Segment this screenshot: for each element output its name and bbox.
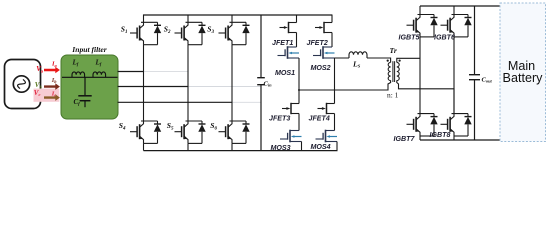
svg-text:S5: S5 bbox=[167, 121, 174, 131]
wire phase line c faint continuation bbox=[232, 101, 261, 103]
switch S1 bbox=[130, 22, 161, 44]
switch S3 bbox=[219, 22, 250, 44]
svg-text:Ia: Ia bbox=[51, 61, 58, 68]
wire S6 emitter stub bbox=[231, 143, 233, 150]
svg-text:IGBT5: IGBT5 bbox=[399, 34, 421, 42]
wire S2 collector stub bbox=[187, 15, 189, 23]
junction leg1 mid node bbox=[298, 89, 300, 91]
wire Cin bus bottom bbox=[260, 85, 262, 151]
wire leg phase a bbox=[143, 45, 145, 121]
svg-text:IGBT8: IGBT8 bbox=[430, 131, 451, 139]
svg-text:JFET2: JFET2 bbox=[307, 39, 328, 47]
svg-text:MOS2: MOS2 bbox=[311, 64, 331, 72]
svg-text:MOS1: MOS1 bbox=[275, 69, 295, 77]
wire leg phase c bbox=[231, 45, 233, 121]
main battery box bbox=[500, 3, 546, 142]
svg-text:S3: S3 bbox=[207, 25, 214, 35]
svg-text:IGBT7: IGBT7 bbox=[394, 135, 416, 143]
wire JFET2 drain stub bbox=[331, 15, 333, 23]
switch S5 bbox=[175, 121, 206, 143]
wire JFET1 drain stub bbox=[296, 15, 298, 23]
wire phase line a bbox=[118, 71, 144, 73]
wire phase line b bbox=[118, 86, 189, 88]
wire Cf branch bbox=[84, 77, 86, 95]
switch S2 bbox=[175, 22, 206, 44]
transformer Tr bbox=[388, 61, 399, 82]
svg-text:Ib: Ib bbox=[51, 77, 58, 84]
wire phase line a faint continuation bbox=[144, 71, 189, 73]
switch S4 bbox=[130, 121, 161, 143]
wire Cout bus bottom bbox=[474, 80, 476, 140]
transistor MOS4 bbox=[316, 130, 338, 143]
capacitor Cin bbox=[257, 78, 265, 85]
svg-text:S6: S6 bbox=[210, 121, 217, 131]
capacitor Cout bbox=[469, 75, 480, 80]
wire MOS4 source stub bbox=[336, 142, 338, 151]
svg-text:JFET1: JFET1 bbox=[272, 39, 293, 47]
wire Cout bus top bbox=[474, 6, 476, 74]
wire JFET2 source to MOS2 drain bbox=[331, 33, 333, 48]
wire JFET3 source to MOS3 drain bbox=[298, 114, 300, 131]
switch IGBT5 bbox=[407, 15, 438, 37]
svg-text:Tr: Tr bbox=[390, 46, 398, 55]
transistor JFET3 bbox=[282, 103, 299, 114]
arrow Ib phase b bbox=[44, 83, 60, 90]
svg-text:MOS3: MOS3 bbox=[271, 144, 291, 152]
wire S4 emitter stub bbox=[143, 143, 145, 150]
wire phase line b faint continuation bbox=[188, 86, 261, 88]
transistor MOS2 bbox=[313, 46, 335, 59]
wire primary return (leg1 mid to transformer primary bottom) bbox=[299, 80, 391, 90]
svg-text:JFET4: JFET4 bbox=[309, 114, 330, 122]
arrow Ia phase a bbox=[44, 67, 60, 74]
transistor MOS3 bbox=[280, 130, 302, 143]
svg-text:JFET3: JFET3 bbox=[269, 114, 290, 122]
inductor Ls bbox=[349, 52, 367, 58]
wire JFET1 source to MOS1 drain bbox=[296, 33, 298, 48]
transistor JFET4 bbox=[318, 103, 335, 114]
wire S3 collector stub bbox=[231, 15, 233, 23]
wire secondary bottom to right bridge legB bbox=[397, 80, 454, 113]
switch IGBT7 bbox=[407, 114, 438, 136]
wire Ls line (leg2 mid to transformer primary top) bbox=[335, 58, 391, 62]
wire S5 emitter stub bbox=[187, 143, 189, 150]
wire legA (IGBT5 emitter to IGBT7 collector) bbox=[419, 37, 421, 114]
svg-text:Va: Va bbox=[36, 65, 44, 73]
wire MOS3 source stub bbox=[301, 142, 303, 151]
wire leg phase b bbox=[187, 45, 189, 121]
wire DC bus top rail (rectifier) bbox=[143, 14, 332, 16]
svg-text:S1: S1 bbox=[121, 25, 128, 35]
wire IGBT5 collector stub bbox=[419, 6, 421, 15]
transistor JFET1 bbox=[280, 22, 297, 33]
svg-text:Cout: Cout bbox=[482, 77, 493, 84]
svg-text:LS: LS bbox=[352, 60, 361, 69]
inductor Lf1 bbox=[72, 72, 85, 77]
wire IGBT8 emitter stub bbox=[453, 136, 455, 140]
switch S6 bbox=[219, 121, 250, 143]
switch IGBT6 bbox=[441, 15, 472, 37]
dot transformer primary polarity bbox=[387, 60, 389, 62]
svg-text:MOS4: MOS4 bbox=[311, 143, 331, 151]
transistor JFET2 bbox=[315, 22, 332, 33]
svg-text:n: 1: n: 1 bbox=[387, 91, 399, 100]
wire DC bus top rail (output) bbox=[420, 5, 500, 7]
svg-text:Input filter: Input filter bbox=[71, 45, 107, 54]
inductor Lf2 bbox=[93, 72, 106, 77]
svg-text:IGBT6: IGBT6 bbox=[434, 34, 455, 42]
svg-text:Cin: Cin bbox=[264, 81, 273, 88]
AC source G1 bbox=[5, 60, 41, 109]
switch IGBT8 bbox=[441, 114, 472, 136]
svg-text:Battery: Battery bbox=[503, 71, 544, 85]
transistor MOS1 bbox=[278, 46, 300, 59]
input filter box bbox=[61, 55, 118, 119]
wire filter line bbox=[62, 76, 118, 78]
wire JFET4 source to MOS4 drain bbox=[334, 114, 336, 131]
wire secondary top to right bridge legA bbox=[397, 58, 420, 62]
wire Cin bus top bbox=[260, 15, 262, 78]
svg-text:S4: S4 bbox=[119, 121, 126, 131]
wire IGBT6 collector stub bbox=[453, 6, 455, 15]
wire DC bus bottom rail (rectifier) bbox=[144, 150, 338, 152]
wire leg2 mid (MOS2 source down to JFET4) bbox=[334, 58, 336, 104]
wire leg1 mid (MOS1 source down to JFET3) bbox=[298, 58, 300, 104]
highlight behind phase b/c region bbox=[34, 89, 60, 102]
wire phase line c bbox=[118, 101, 233, 103]
wire S1 collector stub bbox=[143, 15, 145, 23]
wire IGBT7 emitter stub bbox=[419, 136, 421, 140]
capacitor Cf bbox=[78, 96, 91, 107]
dot transformer secondary polarity bbox=[399, 60, 401, 62]
svg-text:S2: S2 bbox=[164, 25, 171, 35]
wire DC bus bottom rail (output) bbox=[420, 139, 500, 141]
wire legB (IGBT6 emitter to IGBT8 collector) bbox=[453, 37, 455, 114]
arrow Ic phase c bbox=[44, 94, 60, 101]
